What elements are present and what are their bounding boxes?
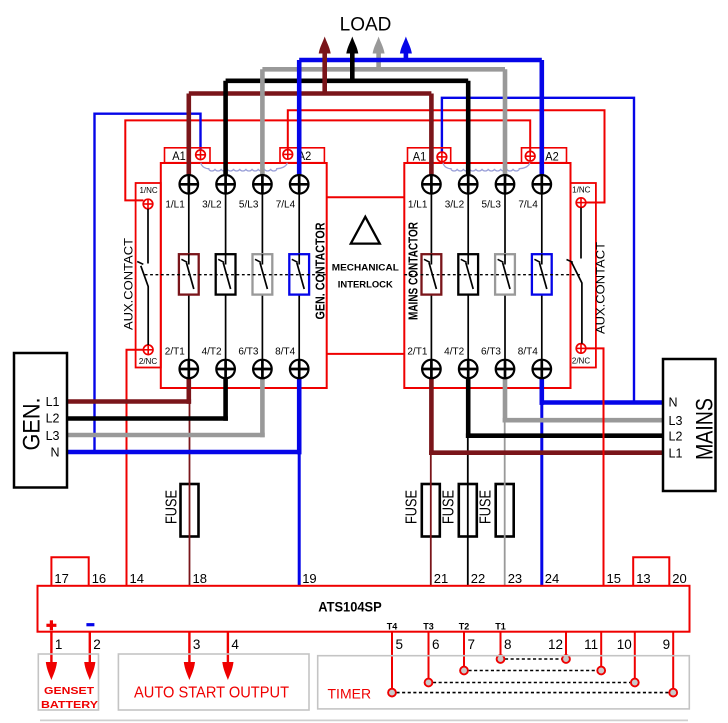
svg-text:3/L2: 3/L2 [445, 200, 465, 211]
svg-text:15: 15 [607, 571, 621, 586]
svg-text:AUX.CONTACT: AUX.CONTACT [121, 237, 135, 330]
svg-text:20: 20 [672, 571, 686, 586]
svg-text:L2: L2 [46, 412, 60, 426]
svg-text:2/NC: 2/NC [139, 357, 157, 366]
svg-text:22: 22 [471, 571, 485, 586]
svg-text:L3: L3 [669, 414, 683, 428]
svg-text:12: 12 [548, 637, 563, 652]
svg-text:7/L4: 7/L4 [276, 200, 296, 211]
svg-text:N: N [669, 396, 678, 410]
svg-text:A1: A1 [413, 150, 427, 164]
svg-text:AUTO START OUTPUT: AUTO START OUTPUT [134, 685, 290, 702]
svg-text:1/L1: 1/L1 [165, 200, 185, 211]
svg-text:N: N [50, 446, 59, 460]
svg-text:L2: L2 [669, 430, 683, 444]
svg-text:3/L2: 3/L2 [202, 200, 222, 211]
svg-text:GEN.: GEN. [18, 398, 45, 451]
svg-text:FUSE: FUSE [441, 490, 458, 524]
svg-text:A1: A1 [172, 149, 186, 163]
svg-text:6/T3: 6/T3 [481, 347, 501, 358]
svg-text:1/NC: 1/NC [139, 186, 157, 195]
svg-text:13: 13 [636, 571, 650, 586]
svg-text:L3: L3 [46, 429, 60, 443]
svg-text:1/NC: 1/NC [572, 185, 590, 194]
svg-text:4: 4 [231, 637, 239, 652]
svg-text:2/T1: 2/T1 [407, 347, 427, 358]
svg-text:L1: L1 [669, 446, 683, 460]
svg-text:17: 17 [54, 571, 68, 586]
svg-text:TIMER: TIMER [328, 686, 372, 702]
svg-text:9: 9 [663, 637, 671, 652]
svg-text:A2: A2 [545, 150, 559, 164]
svg-text:2/NC: 2/NC [572, 357, 590, 366]
svg-text:21: 21 [434, 571, 448, 586]
svg-text:7: 7 [468, 637, 476, 652]
svg-text:24: 24 [545, 571, 559, 586]
svg-text:FUSE: FUSE [478, 490, 495, 524]
svg-text:23: 23 [508, 571, 522, 586]
svg-text:T1: T1 [495, 622, 506, 632]
svg-text:6: 6 [432, 637, 440, 652]
svg-text:1/L1: 1/L1 [408, 200, 428, 211]
svg-text:4/T2: 4/T2 [444, 347, 464, 358]
svg-text:GEN. CONTACTOR: GEN. CONTACTOR [313, 222, 328, 319]
svg-text:16: 16 [92, 571, 106, 586]
svg-text:6/T3: 6/T3 [238, 347, 258, 358]
svg-text:LOAD: LOAD [340, 15, 392, 36]
svg-text:FUSE: FUSE [404, 490, 421, 524]
svg-text:INTERLOCK: INTERLOCK [338, 280, 394, 290]
svg-text:ATS104SP: ATS104SP [318, 599, 382, 615]
svg-text:11: 11 [584, 637, 598, 652]
svg-text:1: 1 [55, 637, 63, 652]
svg-text:AUX.CONTACT: AUX.CONTACT [593, 241, 607, 334]
svg-text:BATTERY: BATTERY [41, 700, 98, 711]
svg-text:GENSET: GENSET [44, 686, 94, 697]
svg-text:MAINS: MAINS [692, 398, 719, 460]
svg-text:8/T4: 8/T4 [518, 347, 538, 358]
svg-text:T2: T2 [459, 622, 470, 632]
svg-text:L1: L1 [46, 395, 60, 409]
svg-text:3: 3 [193, 637, 201, 652]
svg-text:2: 2 [93, 637, 101, 652]
svg-text:5/L3: 5/L3 [482, 200, 502, 211]
svg-text:4/T2: 4/T2 [202, 347, 222, 358]
svg-text:7/L4: 7/L4 [518, 200, 538, 211]
svg-text:FUSE: FUSE [164, 490, 181, 524]
svg-text:T4: T4 [387, 622, 398, 632]
svg-text:19: 19 [302, 571, 316, 586]
svg-text:5: 5 [396, 637, 404, 652]
svg-text:8/T4: 8/T4 [275, 347, 295, 358]
svg-text:10: 10 [617, 637, 632, 652]
svg-text:2/T1: 2/T1 [165, 347, 185, 358]
svg-text:MAINS CONTACTOR: MAINS CONTACTOR [405, 222, 420, 320]
svg-text:T3: T3 [423, 622, 434, 632]
svg-text:18: 18 [193, 571, 207, 586]
svg-text:14: 14 [130, 571, 144, 586]
svg-text:5/L3: 5/L3 [239, 200, 259, 211]
svg-text:8: 8 [504, 637, 512, 652]
svg-text:MECHANICAL: MECHANICAL [332, 262, 400, 272]
